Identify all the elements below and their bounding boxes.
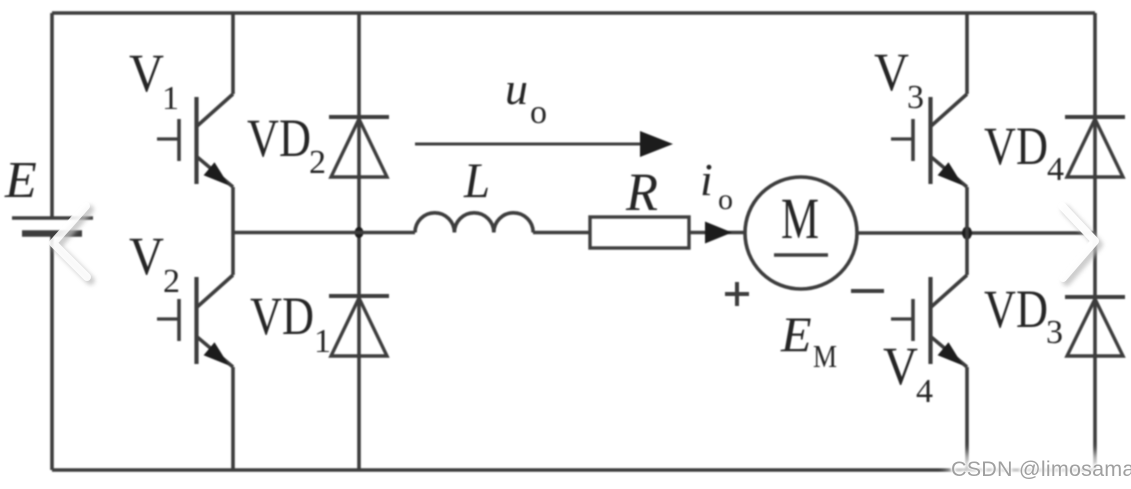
wire right IGBT leg top [965,13,969,94]
label E [4,152,37,209]
wire mid left [233,231,415,235]
label plus [725,282,749,306]
wire left diode leg [357,13,361,470]
transistor V2 [157,275,233,367]
svg-text:VD: VD [984,116,1048,176]
label VD3 [984,279,1063,351]
wire mid between L and R [533,231,590,235]
svg-text:V: V [883,336,918,396]
svg-text:o: o [718,183,733,216]
wire right IGBT leg middle [965,187,969,275]
motor M circle [745,177,857,289]
label VD1 [250,286,331,360]
svg-text:V: V [129,43,164,103]
junction dot left [355,227,364,238]
wire left edge upper [50,13,54,218]
diode VD2 [329,117,389,177]
diode VD4 [1065,117,1125,177]
label V4 [883,336,933,410]
svg-text:1: 1 [162,80,179,117]
svg-text:4: 4 [1047,151,1064,188]
label EM [780,306,837,374]
label V3 [874,42,924,116]
transistor V4 [891,275,967,367]
wire bottom rail [52,468,1095,472]
battery E [12,218,93,234]
watermark CSDN @limosama [948,453,1131,484]
wire right IGBT leg bottom [965,367,969,470]
svg-text:M: M [813,338,837,374]
label VD4 [984,116,1064,188]
svg-text:VD: VD [984,279,1048,339]
svg-text:3: 3 [1046,314,1063,351]
svg-text:i: i [700,154,713,205]
svg-text:o: o [530,94,547,131]
svg-text:VD: VD [250,286,314,346]
svg-text:4: 4 [916,373,933,410]
inductor L [415,213,533,233]
label io [700,154,733,216]
svg-text:2: 2 [163,263,180,300]
diode VD3 [1065,297,1125,356]
svg-text:u: u [505,63,528,114]
resistor R [590,217,689,248]
svg-text:M: M [781,186,819,251]
wire top rail [52,11,1095,15]
label minus [851,289,884,293]
wire left IGBT leg top [231,13,235,94]
label L [463,152,490,208]
arrow uo [415,131,673,157]
chevron right overlay [1062,206,1099,282]
svg-text:V: V [129,226,164,286]
svg-text:3: 3 [907,79,924,116]
svg-text:L: L [463,152,490,208]
chevron left overlay [53,206,91,281]
svg-text:VD: VD [247,108,311,168]
label R [625,162,658,222]
svg-text:1: 1 [314,323,331,360]
label uo [505,63,547,131]
svg-text:E: E [780,306,812,362]
diode VD1 [329,296,389,356]
label V2 [129,226,180,300]
label V1 [129,43,179,117]
wire left IGBT leg bottom [231,367,235,470]
label VD2 [247,108,326,181]
svg-text:E: E [4,152,37,209]
junction dot right [962,227,972,240]
svg-text:R: R [625,162,658,222]
wire R to motor with arrow io [689,222,746,244]
transistor V3 [891,94,967,187]
svg-text:2: 2 [309,144,326,181]
wire motor to right [857,231,1095,235]
wire left edge lower [50,236,54,470]
svg-text:V: V [874,42,909,102]
wire left IGBT leg middle [231,187,235,275]
transistor V1 [157,94,233,187]
wire right edge [1093,13,1097,470]
